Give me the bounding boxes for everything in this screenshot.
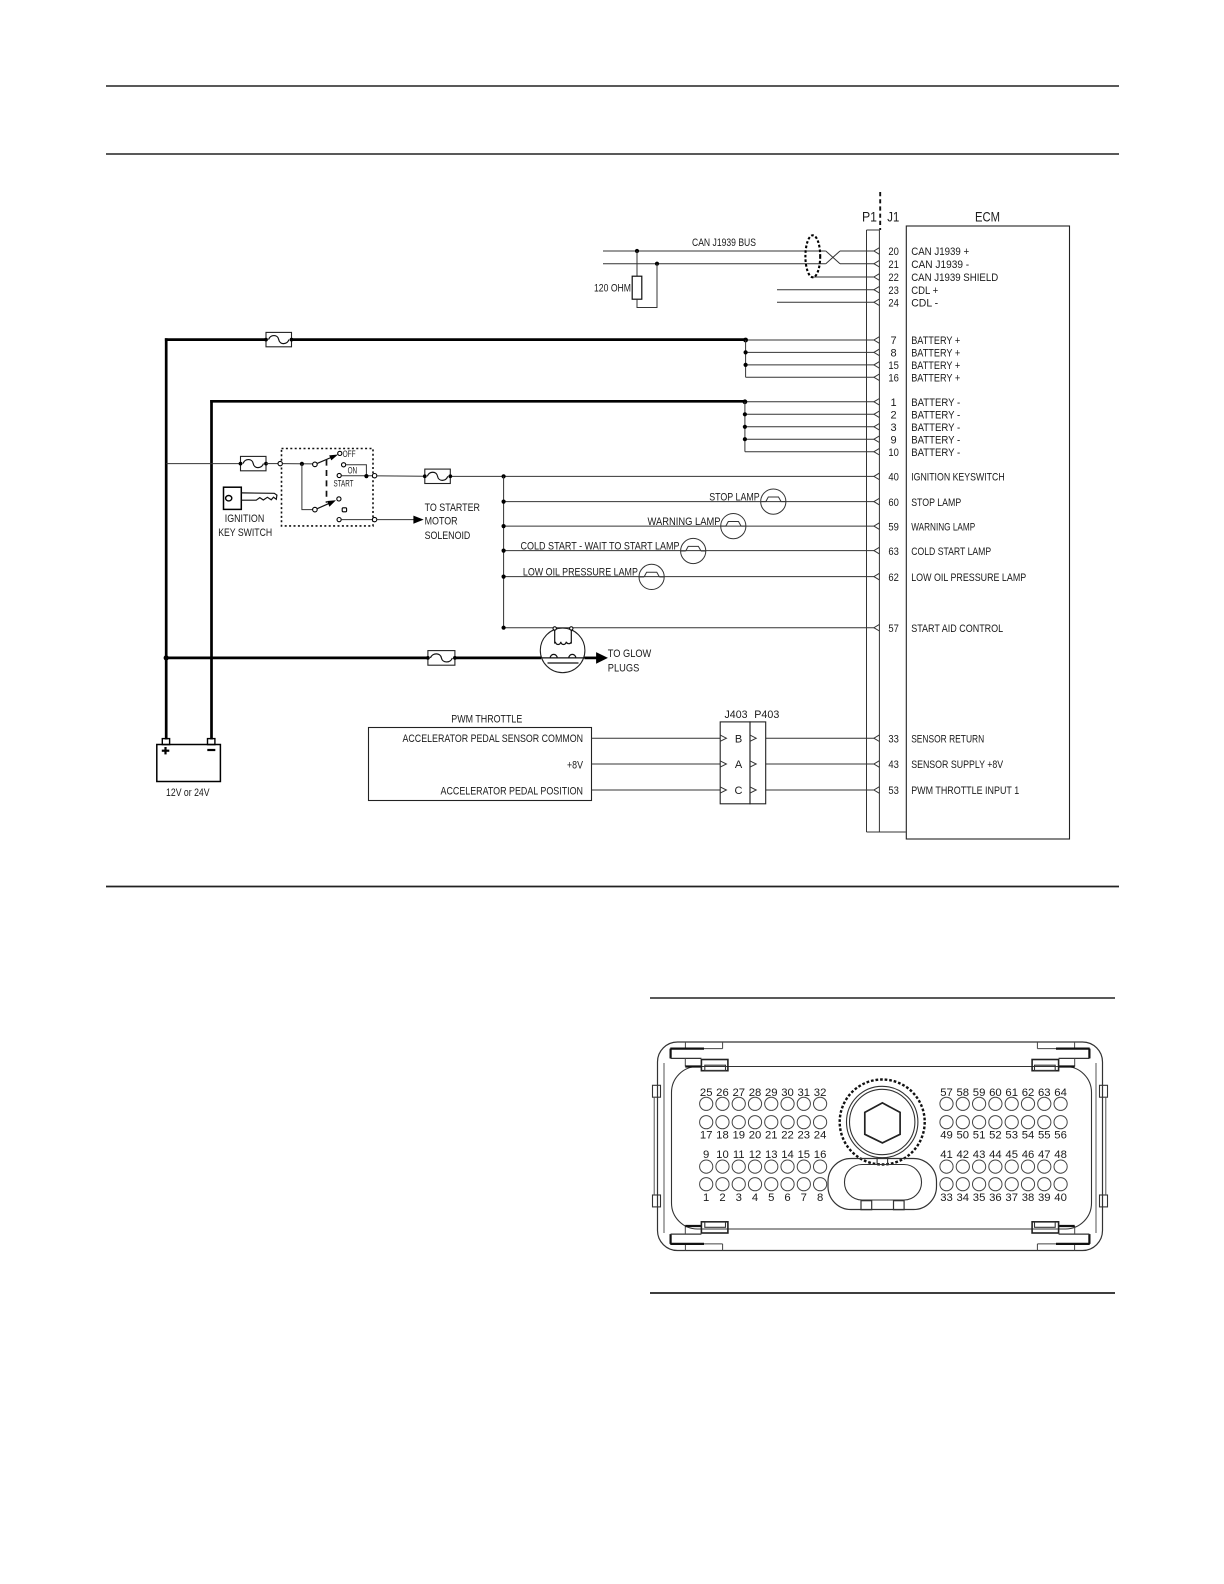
glow plugs arrowhead (597, 653, 607, 663)
switch upper movable contact (313, 462, 318, 467)
svg-text:6: 6 (784, 1192, 790, 1204)
wire to pin 53 (766, 789, 874, 791)
wire ON terminal jog (346, 465, 367, 476)
shell side tab right (1100, 1195, 1108, 1207)
key shaft (241, 493, 277, 500)
connector J403 box (720, 722, 750, 804)
svg-text:63: 63 (888, 546, 899, 558)
node on CAN + (635, 249, 639, 253)
svg-text:32: 32 (814, 1087, 827, 1099)
svg-text:CAN J1939 -: CAN J1939 - (911, 259, 969, 271)
relay contact dome right (569, 654, 576, 657)
wire to pin 7 (746, 339, 874, 341)
svg-text:24: 24 (814, 1130, 827, 1142)
svg-text:TO GLOW: TO GLOW (608, 648, 652, 660)
svg-text:3: 3 (891, 422, 897, 434)
svg-text:60: 60 (989, 1087, 1002, 1099)
OFF terminal (338, 451, 342, 455)
svg-text:BATTERY -: BATTERY - (911, 422, 960, 434)
pin 59 chevron (874, 523, 880, 530)
battery + feed left segment (165, 338, 266, 341)
svg-text:26: 26 (716, 1087, 729, 1099)
svg-text:BATTERY +: BATTERY + (911, 373, 960, 385)
svg-text:30: 30 (781, 1087, 794, 1099)
svg-text:B: B (735, 733, 742, 745)
svg-text:12: 12 (749, 1149, 762, 1161)
node stop lamp (502, 500, 506, 504)
svg-text:3: 3 (736, 1192, 742, 1204)
svg-text:P1: P1 (862, 209, 877, 225)
svg-text:J1: J1 (887, 209, 899, 225)
svg-text:62: 62 (1022, 1087, 1035, 1099)
pin 63 chevron (874, 547, 880, 554)
wire to pin 57 (504, 627, 874, 629)
key hole (226, 496, 232, 501)
relay coil windings (555, 642, 571, 645)
svg-text:59: 59 (973, 1087, 986, 1099)
svg-text:33: 33 (940, 1192, 953, 1204)
glow plug relay body (540, 628, 585, 673)
svg-text:61: 61 (1005, 1087, 1018, 1099)
connector clip top-left (684, 1042, 686, 1049)
pin 15 chevron (874, 362, 880, 369)
START terminal upper (337, 473, 341, 477)
J403 pin C arrow (720, 787, 726, 793)
battery - sign (207, 749, 215, 751)
lower blade (317, 503, 329, 508)
PWM throttle box (369, 728, 592, 801)
pin 22 chevron (874, 274, 880, 281)
resistor bottom lead (637, 264, 657, 308)
wire to pin 22 (811, 276, 874, 278)
ECM box (906, 226, 1069, 839)
svg-text:37: 37 (1005, 1192, 1018, 1204)
svg-text:59: 59 (888, 521, 899, 533)
svg-text:CAN J1939 BUS: CAN J1939 BUS (692, 237, 756, 249)
lower OFF terminal (337, 497, 341, 501)
svg-text:SENSOR SUPPLY +8V: SENSOR SUPPLY +8V (911, 759, 1004, 771)
svg-text:25: 25 (700, 1087, 713, 1099)
svg-text:33: 33 (888, 733, 899, 745)
svg-text:BATTERY -: BATTERY - (911, 410, 960, 422)
svg-text:PWM THROTTLE INPUT 1: PWM THROTTLE INPUT 1 (911, 785, 1019, 797)
J403 pin A arrow (720, 761, 726, 767)
pin 40 chevron (874, 473, 880, 480)
battery - feed (210, 400, 745, 403)
wire +8V to J403 (592, 763, 721, 765)
switch lower movable contact (313, 507, 318, 512)
wire lower START to box edge (341, 519, 372, 521)
svg-text:28: 28 (749, 1087, 762, 1099)
battery - branch vertical (744, 402, 746, 452)
svg-text:OFF: OFF (343, 449, 356, 460)
svg-text:ON: ON (348, 465, 358, 476)
page rule top (106, 85, 1119, 87)
right block pin circles row 1 (940, 1097, 953, 1110)
svg-text:56: 56 (1054, 1130, 1067, 1142)
keyswitch feed wire (166, 463, 240, 465)
relay contact dome left (550, 654, 557, 657)
svg-text:11: 11 (733, 1149, 745, 1161)
node pin 15 (744, 363, 748, 367)
node battery + branch (743, 338, 748, 343)
svg-text:ECM: ECM (975, 209, 1000, 225)
P1/J1 mating plane dashed line (879, 192, 881, 230)
node switch common (300, 462, 304, 466)
svg-text:BATTERY +: BATTERY + (911, 348, 960, 360)
svg-text:START AID CONTROL: START AID CONTROL (911, 623, 1003, 635)
battery + feed right segment (292, 338, 746, 341)
pin 1 chevron (874, 399, 880, 406)
wire to pin 62 (504, 576, 874, 578)
wire to starter solenoid (377, 519, 414, 521)
glow output wire (585, 657, 598, 660)
relay contact wire (541, 657, 585, 659)
wire to pin 8 (746, 351, 874, 353)
svg-text:LOW OIL PRESSURE LAMP: LOW OIL PRESSURE LAMP (523, 567, 638, 579)
wire input to common (282, 463, 313, 465)
latch foot right (894, 1201, 905, 1210)
svg-text:57: 57 (888, 623, 899, 635)
starter solenoid arrowhead (414, 516, 422, 523)
svg-text:PLUGS: PLUGS (608, 663, 640, 675)
wire fuse F2 to switch (266, 463, 278, 465)
warning lamp symbol (721, 514, 746, 539)
fuse F3 (425, 469, 451, 483)
svg-text:IGNITION: IGNITION (225, 513, 265, 525)
svg-text:27: 27 (732, 1087, 745, 1099)
relay coil terminal A (553, 627, 556, 630)
stop lamp symbol (761, 489, 786, 514)
svg-text:53: 53 (888, 785, 899, 797)
svg-text:7: 7 (801, 1192, 807, 1204)
svg-text:19: 19 (732, 1130, 745, 1142)
connector P403 box (750, 722, 766, 804)
shell side tab left (653, 1195, 661, 1207)
relay coil right lead (570, 628, 572, 643)
svg-text:5: 5 (768, 1192, 774, 1204)
pin 8 chevron (874, 349, 880, 356)
shell rib right (1105, 1097, 1107, 1195)
cable tie ellipse (805, 235, 820, 277)
boss-to-latch notch left (876, 1158, 878, 1165)
svg-text:BATTERY +: BATTERY + (911, 335, 960, 347)
node glow feed tap (164, 655, 169, 660)
svg-text:43: 43 (973, 1149, 986, 1161)
svg-text:13: 13 (765, 1149, 778, 1161)
svg-text:64: 64 (1054, 1087, 1067, 1099)
svg-text:STOP LAMP: STOP LAMP (709, 491, 760, 503)
svg-text:ACCELERATOR PEDAL SENSOR COMMO: ACCELERATOR PEDAL SENSOR COMMON (403, 733, 584, 745)
node pin 8 (744, 350, 748, 354)
connector clip top-right (1074, 1042, 1076, 1049)
wire to pin 3 (745, 426, 874, 428)
svg-text:17: 17 (700, 1130, 713, 1142)
wire to pin 15 (746, 364, 874, 366)
ECM 64-pin connector outer shell (658, 1042, 1103, 1251)
svg-text:21: 21 (888, 259, 899, 271)
pin 7 chevron (874, 337, 880, 344)
svg-text:54: 54 (1022, 1130, 1035, 1142)
J403 pin B arrow (720, 735, 726, 741)
wire to pin 24 (777, 301, 874, 303)
svg-text:2: 2 (891, 410, 897, 422)
svg-text:47: 47 (1038, 1149, 1051, 1161)
connector strip bottom (867, 831, 906, 833)
svg-text:10: 10 (716, 1149, 729, 1161)
svg-text:WARNING LAMP: WARNING LAMP (911, 521, 975, 533)
latch foot left (861, 1201, 872, 1210)
lower blade arrowhead (328, 501, 335, 506)
svg-text:50: 50 (957, 1130, 970, 1142)
node pin 3 (743, 425, 747, 429)
mechanical link dashed (326, 460, 328, 503)
connector clip bottom-left (684, 1244, 686, 1251)
svg-text:62: 62 (888, 572, 899, 584)
connector figure rule bottom (650, 1292, 1115, 1294)
shell rib left (653, 1097, 655, 1195)
node warning lamp (502, 524, 506, 528)
svg-text:CDL -: CDL - (911, 298, 938, 310)
svg-text:STOP LAMP: STOP LAMP (911, 497, 961, 509)
connector inner face (672, 1067, 1092, 1230)
right block pin circles row 3 (940, 1160, 953, 1173)
node pin 2 (743, 412, 747, 416)
P403 pin B arrow (750, 735, 756, 741)
cold start lamp symbol (681, 538, 706, 563)
wire to pin 63 (504, 550, 874, 552)
wire to pin 40 (452, 475, 874, 477)
pin 21 chevron (874, 260, 880, 267)
svg-text:+8V: +8V (567, 759, 584, 771)
pin 20 chevron (874, 248, 880, 255)
svg-text:IGNITION KEYSWITCH: IGNITION KEYSWITCH (911, 472, 1005, 484)
svg-text:12V or 24V: 12V or 24V (166, 787, 210, 799)
svg-text:MOTOR: MOTOR (425, 516, 458, 528)
svg-text:7: 7 (891, 335, 897, 347)
pin 53 chevron (874, 787, 880, 794)
low oil pressure lamp symbol (639, 564, 664, 589)
fuse F4 (428, 651, 455, 666)
svg-text:ACCELERATOR PEDAL POSITION: ACCELERATOR PEDAL POSITION (441, 786, 584, 798)
shell side tab right (1100, 1085, 1108, 1097)
svg-text:SENSOR RETURN: SENSOR RETURN (911, 733, 984, 745)
svg-text:57: 57 (940, 1087, 953, 1099)
svg-text:16: 16 (814, 1149, 827, 1161)
connector figure rule top (650, 997, 1115, 999)
svg-text:1: 1 (703, 1192, 709, 1204)
svg-text:58: 58 (957, 1087, 970, 1099)
svg-text:45: 45 (1005, 1149, 1018, 1161)
glow feed wire (166, 657, 428, 660)
switch output terminal (372, 474, 376, 478)
center boss outer ring (840, 1080, 925, 1165)
left block pin circles row 1 (700, 1097, 713, 1110)
pin 57 chevron (874, 624, 880, 631)
svg-text:41: 41 (940, 1149, 953, 1161)
shell inner wall left (663, 1063, 665, 1233)
svg-text:C: C (735, 785, 743, 797)
svg-text:20: 20 (749, 1130, 762, 1142)
svg-text:BATTERY -: BATTERY - (911, 434, 960, 446)
node battery - branch (743, 399, 748, 404)
svg-text:38: 38 (1022, 1192, 1035, 1204)
pin 3 chevron (874, 424, 880, 431)
node on CAN - (655, 262, 659, 266)
battery - vertical trunk (210, 400, 213, 740)
wire CAN - (603, 263, 826, 265)
latch inner (845, 1165, 922, 1201)
center boss hex socket (865, 1103, 900, 1143)
resistor lead down (636, 251, 638, 276)
switch blade arrowhead (330, 455, 337, 460)
latch outer (828, 1159, 937, 1210)
page rule second (106, 153, 1119, 155)
svg-text:COLD START LAMP: COLD START LAMP (911, 546, 991, 558)
svg-text:20: 20 (888, 246, 899, 258)
svg-text:P403: P403 (754, 709, 779, 721)
left block pin circles row 4 (700, 1178, 713, 1191)
svg-text:44: 44 (989, 1149, 1002, 1161)
svg-text:35: 35 (973, 1192, 986, 1204)
pin 33 chevron (874, 735, 880, 742)
node pin 9 (743, 437, 747, 441)
svg-text:BATTERY -: BATTERY - (911, 447, 960, 459)
svg-text:8: 8 (891, 348, 897, 360)
svg-text:60: 60 (888, 497, 899, 509)
battery + branch vertical (745, 340, 747, 377)
pin 62 chevron (874, 573, 880, 580)
shell side tab left (653, 1085, 661, 1097)
svg-text:40: 40 (888, 472, 899, 484)
svg-text:31: 31 (798, 1087, 811, 1099)
wire switch output to fuse F3 (377, 475, 425, 477)
svg-text:BATTERY -: BATTERY - (911, 397, 960, 409)
connector strip P1/J1 right edge (878, 230, 880, 832)
wire pedal common to J403 (592, 737, 721, 739)
keyswitch dotted enclosure (282, 449, 374, 526)
lower START terminal (337, 518, 341, 522)
left block pin circles row 3 (700, 1160, 713, 1173)
wire to pin 9 (745, 438, 874, 440)
connector strip top (867, 229, 880, 231)
svg-text:14: 14 (781, 1149, 794, 1161)
pin 23 chevron (874, 286, 880, 293)
twisted pair crossover (826, 251, 840, 264)
center boss ring 3 (850, 1089, 915, 1154)
right block pin circles row 2 (940, 1116, 953, 1129)
battery body 12V or 24V (157, 745, 221, 782)
svg-text:8: 8 (817, 1192, 823, 1204)
svg-text:J403: J403 (725, 709, 748, 721)
svg-text:51: 51 (973, 1130, 986, 1142)
svg-text:40: 40 (1054, 1192, 1067, 1204)
connector clip bottom-right (1074, 1244, 1076, 1251)
svg-text:TO STARTER: TO STARTER (425, 502, 481, 514)
svg-text:WARNING LAMP: WARNING LAMP (648, 516, 721, 528)
pin 43 chevron (874, 761, 880, 768)
svg-text:49: 49 (940, 1130, 953, 1142)
svg-text:120 OHM: 120 OHM (594, 282, 631, 294)
switch input terminal (278, 461, 282, 465)
wire to pin 33 (766, 737, 874, 739)
lamp bus vertical (503, 476, 505, 627)
svg-text:52: 52 (989, 1130, 1002, 1142)
svg-text:39: 39 (1038, 1192, 1051, 1204)
svg-text:43: 43 (888, 759, 899, 771)
pin 9 chevron (874, 436, 880, 443)
battery terminal + post (162, 739, 169, 745)
svg-text:29: 29 (765, 1087, 778, 1099)
center boss ring 2 (847, 1086, 918, 1157)
svg-text:KEY SWITCH: KEY SWITCH (218, 527, 272, 539)
svg-text:21: 21 (765, 1130, 778, 1142)
key head (224, 487, 242, 509)
right block pin circles row 4 (940, 1178, 953, 1191)
pin 24 chevron (874, 299, 880, 306)
lower pole feed (302, 464, 313, 510)
wire to pin 2 (745, 413, 874, 415)
svg-text:9: 9 (891, 434, 897, 446)
battery + vertical trunk (165, 338, 168, 739)
relay coil terminal B (570, 627, 573, 630)
pin 60 chevron (874, 498, 880, 505)
switch blade to OFF (317, 458, 331, 464)
left block pin circles row 2 (700, 1116, 713, 1129)
svg-text:36: 36 (989, 1192, 1002, 1204)
svg-text:46: 46 (1022, 1149, 1035, 1161)
svg-text:48: 48 (1054, 1149, 1067, 1161)
svg-text:2: 2 (719, 1192, 725, 1204)
node lamp bus top (502, 474, 506, 478)
svg-text:BATTERY +: BATTERY + (911, 360, 960, 372)
svg-text:A: A (735, 759, 743, 771)
shell inner wall right (1095, 1063, 1097, 1233)
svg-text:22: 22 (888, 272, 899, 284)
ON terminal (342, 463, 346, 467)
lower mid contact (342, 508, 346, 512)
wire pedal position to J403 (592, 789, 721, 791)
svg-text:15: 15 (798, 1149, 811, 1161)
svg-text:CAN J1939 SHIELD: CAN J1939 SHIELD (911, 272, 998, 284)
svg-text:23: 23 (888, 285, 899, 297)
switch lower output terminal (372, 517, 376, 521)
wire to pin 43 (766, 763, 874, 765)
wire CAN + (603, 250, 826, 252)
svg-text:9: 9 (703, 1149, 709, 1161)
svg-text:CDL +: CDL + (911, 285, 938, 297)
svg-text:1: 1 (891, 397, 897, 409)
svg-text:16: 16 (888, 373, 899, 385)
P403 pin C arrow (750, 787, 756, 793)
svg-text:COLD START - WAIT TO START LA: COLD START - WAIT TO START LAMP (521, 541, 680, 553)
battery + sign (162, 750, 170, 752)
svg-text:63: 63 (1038, 1087, 1051, 1099)
svg-text:CAN J1939 +: CAN J1939 + (911, 246, 969, 258)
wire START to box edge (341, 475, 372, 477)
svg-text:PWM THROTTLE: PWM THROTTLE (451, 714, 522, 726)
fuse F2 (241, 456, 267, 470)
wire to pin 59 (504, 525, 874, 527)
svg-text:22: 22 (781, 1130, 794, 1142)
battery terminal - post (208, 739, 215, 745)
svg-text:23: 23 (798, 1130, 811, 1142)
connector strip P1/J1 left edge (866, 230, 868, 832)
wire to pin 21 (840, 263, 874, 265)
pin 16 chevron (874, 374, 880, 381)
svg-text:34: 34 (957, 1192, 970, 1204)
svg-text:SOLENOID: SOLENOID (425, 530, 471, 542)
